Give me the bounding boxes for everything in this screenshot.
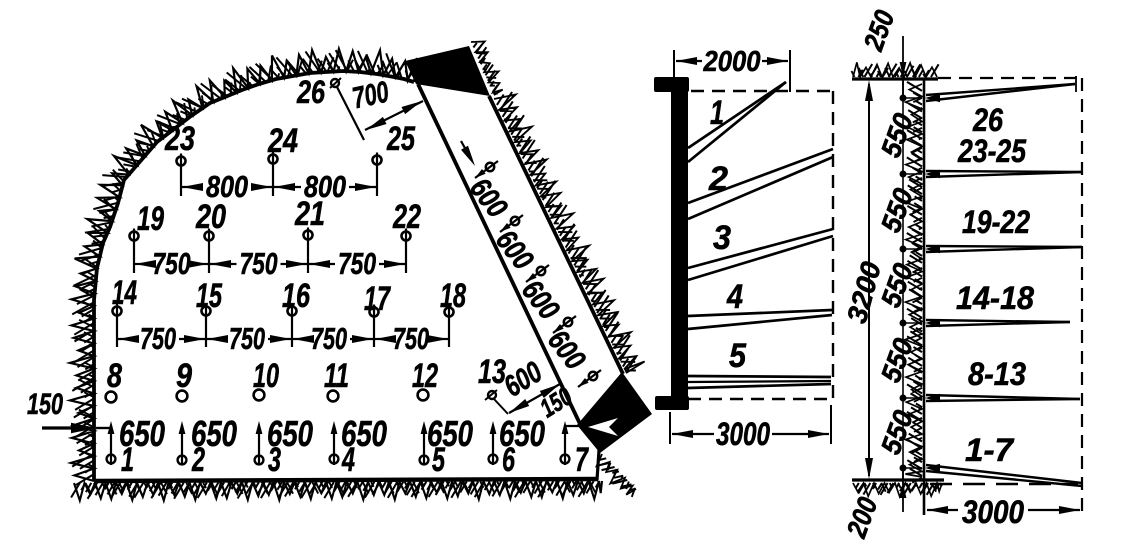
- right hole row 8-13: [926, 395, 1080, 399]
- fan hole 2 (wedge): [688, 149, 833, 203]
- rock hatch along left wall and arch: [70, 49, 427, 485]
- svg-text:15: 15: [196, 277, 223, 315]
- middle: thick wall bar: [671, 80, 688, 410]
- tunnel outline: left wall and arch: [94, 71, 414, 481]
- svg-text:3000: 3000: [962, 494, 1024, 530]
- hole 13 with tick: [488, 391, 496, 399]
- svg-text:650: 650: [119, 413, 165, 454]
- hole 2 with upward arrow stem: [178, 456, 187, 465]
- hole 8: [106, 392, 117, 403]
- right: face line: [923, 79, 926, 515]
- chain mark at y=174: [900, 171, 906, 177]
- svg-text:2: 2: [708, 160, 728, 198]
- right: hatch above top ground line: [852, 62, 939, 77]
- svg-text:26: 26: [296, 74, 325, 110]
- svg-text:16: 16: [282, 277, 311, 315]
- right: dashed top line: [938, 77, 1082, 79]
- svg-text:3000: 3000: [716, 416, 770, 452]
- svg-text:8: 8: [107, 357, 122, 395]
- svg-text:150: 150: [27, 388, 63, 421]
- right hole row 1-7: [926, 465, 1082, 483]
- svg-text:14-18: 14-18: [956, 280, 1034, 316]
- leader line from hole 26: [337, 87, 364, 140]
- rock hatch along inclined channel right edge: [494, 92, 645, 373]
- hole 5 with upward arrow stem: [420, 456, 429, 465]
- hole 17: [370, 308, 379, 317]
- svg-text:1: 1: [710, 94, 724, 132]
- right hole row 26: [926, 84, 1075, 95]
- arrow at top of channel hole line: [461, 141, 471, 159]
- svg-text:18: 18: [440, 277, 466, 315]
- right: chain dimension line: [902, 79, 904, 483]
- svg-text:4: 4: [726, 278, 743, 316]
- svg-text:750: 750: [140, 321, 176, 356]
- svg-text:8-13: 8-13: [968, 356, 1026, 392]
- svg-text:750: 750: [311, 321, 347, 356]
- tunnel right wall below channel: [597, 450, 599, 480]
- dim 700 double arrow to channel: [365, 101, 423, 130]
- hole 3 with upward arrow stem: [255, 456, 264, 465]
- chain mark at y=468: [900, 465, 906, 471]
- channel hole 5: [589, 372, 597, 380]
- hole 25: [373, 156, 382, 165]
- svg-text:750: 750: [240, 246, 278, 281]
- hole 10: [254, 390, 265, 401]
- right: rock hatch along face: [905, 82, 922, 483]
- hole 21: [304, 231, 313, 240]
- hole 11: [328, 391, 339, 402]
- white arrow inside bottom block: [588, 418, 618, 436]
- svg-text:20: 20: [195, 198, 226, 236]
- hole 14: [113, 307, 122, 316]
- right: dashed right edge: [1081, 78, 1083, 515]
- svg-text:5: 5: [729, 337, 747, 375]
- svg-text:1-7: 1-7: [965, 432, 1015, 468]
- dim 600 from 13 to channel (double arrow): [509, 384, 560, 413]
- chain mark at y=323: [900, 320, 906, 326]
- black block at bottom of channel: [577, 372, 652, 453]
- middle: dashed outline right: [832, 91, 834, 399]
- svg-text:3: 3: [713, 219, 731, 257]
- svg-text:650: 650: [191, 413, 237, 454]
- dim 250 at top: [902, 36, 904, 98]
- svg-text:750: 750: [338, 246, 376, 281]
- svg-text:13: 13: [478, 353, 506, 391]
- svg-text:24: 24: [267, 122, 298, 160]
- middle: bottom cap of bar: [655, 396, 689, 410]
- right: hatch below bottom ground line: [853, 483, 942, 497]
- hole 12: [418, 390, 429, 401]
- rock hatch below bottom-right corner: [597, 454, 637, 497]
- chain mark at y=98: [900, 95, 906, 101]
- inclined channel right edge (wire): [489, 96, 623, 374]
- channel hole 3: [537, 267, 545, 275]
- hole 9: [177, 391, 188, 402]
- dim 3000 at bottom of middle: [669, 412, 671, 444]
- right: bottom ground line: [852, 478, 944, 481]
- chain mark at y=398: [900, 395, 906, 401]
- hole 4 with upward arrow stem: [330, 455, 339, 464]
- channel hole 1: [486, 163, 494, 171]
- hole 22: [402, 232, 411, 241]
- svg-text:23: 23: [164, 120, 195, 158]
- right hole row 14-18: [926, 320, 1070, 322]
- hole 1 with upward arrow stem: [107, 455, 116, 464]
- tunnel floor hatch: [71, 481, 602, 501]
- chain mark at y=249: [900, 246, 906, 252]
- svg-text:11: 11: [324, 357, 349, 395]
- channel hole 4: [564, 318, 572, 326]
- right: overall dim 3200: [868, 84, 870, 476]
- inclined channel left edge (wire): [418, 84, 581, 426]
- svg-text:14: 14: [112, 274, 137, 312]
- tunnel outline: floor: [94, 479, 598, 481]
- fan hole 1 (wedge): [688, 82, 786, 148]
- svg-text:750: 750: [153, 246, 191, 281]
- svg-text:7: 7: [575, 441, 589, 479]
- fan hole 3 (wedge): [688, 229, 833, 268]
- right: top ground line: [852, 77, 938, 80]
- right hole row 23-25: [926, 171, 1082, 172]
- svg-text:21: 21: [294, 195, 325, 233]
- dim 2000 at top: [673, 50, 675, 78]
- dim 3000 bottom right: [927, 509, 958, 511]
- svg-text:19-22: 19-22: [962, 204, 1030, 240]
- dim 800 row: [182, 186, 203, 188]
- svg-text:750: 750: [229, 321, 265, 356]
- svg-text:650: 650: [427, 413, 473, 454]
- hatch above portal top edge: [471, 42, 503, 96]
- hole 15: [202, 307, 211, 316]
- dim 750 row (14-18): [118, 338, 137, 340]
- svg-text:650: 650: [267, 413, 313, 454]
- middle: dashed outline top: [691, 90, 833, 92]
- right: bottom dashed line: [930, 483, 1078, 485]
- black portal block at top of channel: [405, 46, 490, 96]
- hole 16: [288, 307, 297, 316]
- svg-text:12: 12: [412, 357, 438, 395]
- svg-text:10: 10: [253, 357, 279, 395]
- dim 200 at bottom: [902, 468, 904, 512]
- svg-text:17: 17: [364, 280, 391, 318]
- hole 23: [177, 157, 186, 166]
- svg-text:25: 25: [386, 120, 416, 158]
- hole 26: [331, 79, 339, 87]
- svg-text:650: 650: [499, 413, 545, 454]
- dim 750 row (19-22): [135, 263, 150, 265]
- fan hole 5 (wedge): [688, 376, 831, 377]
- svg-text:650: 650: [341, 413, 387, 454]
- leader from hole 13: [494, 399, 508, 414]
- fan hole 4 (wedge): [688, 310, 832, 316]
- svg-text:23-25: 23-25: [957, 133, 1027, 169]
- middle: top cap of bar: [654, 77, 689, 92]
- hole 18: [445, 308, 454, 317]
- hole 7 with upward arrow stem: [561, 455, 570, 464]
- connector from hole 7 stem to block arrow: [565, 425, 586, 427]
- svg-text:19: 19: [137, 200, 164, 238]
- channel hole 2: [511, 217, 519, 225]
- svg-text:9: 9: [176, 357, 192, 395]
- svg-text:22: 22: [392, 198, 421, 236]
- hole 20: [205, 232, 214, 241]
- svg-text:2000: 2000: [703, 46, 761, 78]
- hole 19: [130, 232, 139, 241]
- hole 6 with upward arrow stem: [489, 455, 498, 464]
- right hole row 19-22: [926, 246, 1082, 247]
- hole 24: [269, 155, 278, 164]
- svg-text:750: 750: [393, 321, 429, 356]
- middle: dashed outline bottom: [688, 398, 833, 400]
- arrow for 150 into wall: [42, 426, 75, 429]
